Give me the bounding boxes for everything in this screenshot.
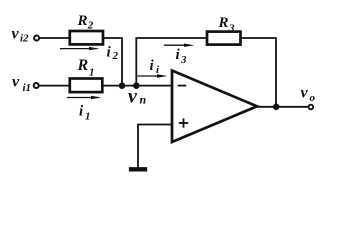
svg-text:2: 2	[112, 50, 119, 62]
svg-text:2: 2	[87, 20, 94, 32]
arrow ii	[138, 74, 168, 77]
plus sign	[179, 118, 188, 127]
label v_n	[128, 86, 147, 108]
svg-text:3: 3	[180, 54, 187, 66]
output node	[273, 104, 280, 111]
svg-text:1: 1	[89, 67, 95, 79]
ground	[129, 167, 147, 171]
arrow i2	[60, 47, 100, 50]
svg-text:3: 3	[228, 23, 235, 35]
svg-text:v: v	[301, 85, 309, 102]
op-amp U1	[172, 71, 257, 143]
svg-text:v: v	[128, 86, 138, 108]
resistor R3	[207, 32, 241, 45]
svg-text:n: n	[140, 93, 147, 107]
svg-text:v: v	[12, 26, 20, 43]
label R2	[77, 13, 94, 32]
wire: op-amp output	[256, 106, 308, 108]
terminal vo	[309, 105, 314, 110]
junction node vn to R3	[133, 82, 140, 89]
svg-text:v: v	[12, 74, 20, 91]
svg-text:i: i	[156, 64, 160, 76]
resistor R2	[70, 31, 103, 44]
svg-text:i: i	[176, 47, 181, 63]
wire: node up and right to R3	[136, 38, 207, 86]
svg-text:i: i	[79, 104, 84, 120]
svg-text:R: R	[218, 15, 229, 31]
svg-text:o: o	[310, 92, 316, 104]
label i_2	[107, 45, 119, 63]
svg-text:R: R	[77, 57, 89, 74]
svg-text:i: i	[107, 45, 112, 61]
label i_i	[150, 58, 161, 76]
terminal vi1	[34, 83, 39, 88]
arrow i1	[67, 96, 102, 99]
svg-text:R: R	[77, 13, 88, 29]
label v_o	[301, 85, 316, 105]
svg-text:i: i	[150, 58, 155, 74]
svg-text:i1: i1	[23, 82, 32, 94]
svg-text:i2: i2	[20, 33, 29, 45]
label i_1	[79, 104, 91, 123]
wire: vi1 terminal to R1	[40, 85, 71, 87]
label v_i1	[12, 74, 31, 94]
minus sign	[178, 85, 186, 87]
wire: vi2 terminal to R2	[40, 37, 71, 39]
wire: noninverting input	[138, 125, 172, 168]
wire: R2 to summing node (corner)	[103, 38, 122, 86]
label v_i2	[12, 26, 30, 45]
label R3	[218, 15, 236, 35]
wire: R1 to op-amp inverting input	[102, 85, 172, 87]
svg-text:1: 1	[85, 111, 91, 123]
resistor R1	[70, 79, 103, 93]
label i_3	[176, 47, 188, 66]
arrow i3	[164, 44, 195, 47]
terminal vi2	[34, 36, 39, 41]
junction node from R2	[119, 82, 126, 89]
label R1	[77, 57, 95, 79]
wire: R3 right, feedback down to output node	[241, 38, 277, 107]
